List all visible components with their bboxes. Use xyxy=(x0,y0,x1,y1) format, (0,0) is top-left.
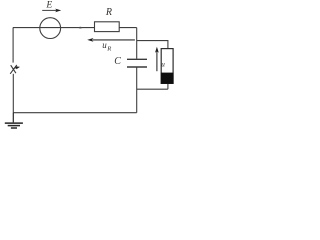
wire right vertical upper xyxy=(136,28,138,59)
node dot on top wire xyxy=(79,27,82,29)
wire left vertical upper xyxy=(12,28,14,63)
switch arrow head xyxy=(15,66,20,69)
wire branch to nonlinear element top xyxy=(137,41,168,49)
source E1 circle xyxy=(40,18,61,39)
arrow E xyxy=(42,9,61,13)
wire top horizontal xyxy=(13,27,137,29)
svg-text:R: R xyxy=(106,46,111,53)
svg-text:R: R xyxy=(105,7,112,18)
wire right vertical lower xyxy=(136,67,138,112)
arrow u_R xyxy=(87,38,135,42)
wire bottom horizontal xyxy=(13,112,137,114)
nonlinear element (lamp) body xyxy=(161,49,173,84)
svg-text:u: u xyxy=(161,61,165,69)
label u_R xyxy=(102,40,111,52)
capacitor C plates xyxy=(127,59,147,67)
switch S xyxy=(10,65,17,74)
resistor R xyxy=(95,22,120,32)
wire nonlinear element bottom stub xyxy=(167,83,169,89)
ground xyxy=(5,113,23,128)
wire left vertical lower xyxy=(12,74,14,113)
svg-text:C: C xyxy=(114,56,121,67)
wire lower branch horizontal xyxy=(137,88,168,90)
svg-text:E: E xyxy=(45,0,52,11)
arrow u xyxy=(155,47,159,71)
